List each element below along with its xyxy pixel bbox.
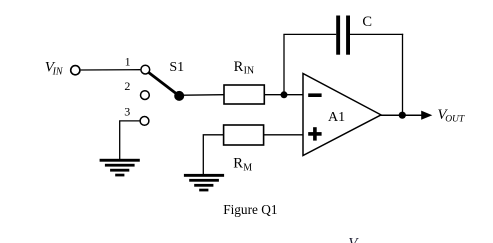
svg-text:IN: IN bbox=[52, 67, 64, 78]
svg-text:R: R bbox=[234, 59, 244, 75]
resistor RIN bbox=[224, 85, 264, 104]
feedback wire up from junction bbox=[283, 34, 285, 94]
ground (RM) bbox=[184, 174, 224, 192]
svg-text:M: M bbox=[243, 162, 252, 173]
switch S1 pole dot bbox=[174, 91, 184, 101]
svg-text:OUT: OUT bbox=[445, 115, 465, 125]
wire RM to op-amp non-inverting input bbox=[264, 134, 303, 136]
ground (switch position 3) bbox=[100, 159, 140, 177]
feedback wire to capacitor left plate bbox=[283, 33, 336, 35]
capacitor C plates bbox=[336, 16, 340, 55]
switch contact 1 bbox=[141, 65, 150, 74]
output wire bbox=[381, 114, 422, 116]
op-amp inverting input symbol bbox=[308, 93, 321, 97]
wire capacitor right plate to output branch bbox=[350, 33, 403, 35]
output junction node bbox=[399, 112, 406, 119]
op-amp A1 bbox=[303, 74, 381, 156]
resistor RM bbox=[224, 125, 264, 145]
svg-text:Figure Q1: Figure Q1 bbox=[223, 202, 277, 217]
op-amp non-inverting input symbol bbox=[308, 132, 321, 136]
wire RIN to op-amp inverting input bbox=[264, 94, 303, 96]
switch contact 2 bbox=[141, 91, 150, 100]
switch contact 3 bbox=[140, 117, 149, 126]
junction node at inverting input bbox=[281, 91, 288, 98]
svg-text:S1: S1 bbox=[169, 60, 184, 75]
switch S1 blade bbox=[149, 73, 179, 96]
wire RM left branch bbox=[203, 135, 223, 175]
output arrow bbox=[421, 111, 432, 120]
svg-text:A1: A1 bbox=[328, 110, 345, 125]
svg-text:1: 1 bbox=[125, 54, 131, 68]
wire contact 3 to ground bbox=[120, 121, 140, 159]
svg-text:3: 3 bbox=[124, 105, 130, 119]
svg-text:C: C bbox=[362, 14, 372, 30]
feedback wire down to output node bbox=[402, 34, 404, 115]
wire VIN terminal to contact 1 bbox=[81, 69, 141, 71]
svg-text:2: 2 bbox=[124, 79, 130, 93]
svg-text:IN: IN bbox=[244, 66, 255, 77]
input terminal circle bbox=[71, 66, 80, 75]
wire pole to RIN bbox=[184, 94, 224, 97]
svg-text:R: R bbox=[233, 156, 243, 172]
